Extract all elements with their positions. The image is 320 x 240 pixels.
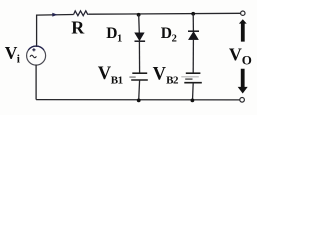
svg-text:1: 1	[117, 34, 122, 45]
node top junction D1	[137, 13, 141, 17]
battery VB1	[129, 73, 147, 80]
label Vo	[229, 44, 252, 67]
diode D1	[135, 33, 146, 41]
current arrow on top wire	[52, 13, 57, 17]
label D2	[161, 25, 177, 45]
wire D2 anode to battery	[192, 40, 194, 73]
wire D1 anode	[138, 15, 141, 33]
svg-text:R: R	[71, 17, 85, 37]
svg-text:V: V	[98, 64, 112, 84]
wire VB1 to bottom rail	[138, 80, 141, 101]
wire VB2 to bottom rail	[192, 83, 195, 101]
wire top rail	[37, 13, 241, 47]
battery VB2	[181, 73, 202, 83]
label R	[71, 17, 85, 37]
svg-text:B1: B1	[111, 75, 123, 87]
terminal bottom right	[240, 98, 245, 103]
label VB1	[98, 64, 123, 87]
label Vi	[5, 43, 21, 66]
svg-text:V: V	[229, 44, 242, 64]
label D1	[106, 25, 122, 45]
svg-text:V: V	[153, 64, 167, 84]
node top junction D2	[191, 12, 195, 16]
svg-text:D: D	[106, 25, 117, 42]
diode D2	[188, 31, 199, 39]
arrow down Vo minus	[238, 69, 248, 94]
wire D2 cathode	[192, 14, 194, 31]
arrow up Vo plus	[239, 19, 247, 41]
resistor R	[74, 11, 89, 16]
terminal top right	[241, 11, 245, 15]
label VB2	[153, 64, 179, 86]
wire D1 cathode to battery	[138, 41, 140, 72]
voltage source Vi	[27, 46, 46, 65]
wire bottom rail	[36, 99, 240, 101]
svg-text:D: D	[161, 25, 172, 42]
svg-text:O: O	[242, 53, 252, 68]
svg-text:B2: B2	[166, 75, 179, 87]
node bottom junction D2	[191, 99, 195, 103]
wire left bottom	[35, 65, 37, 100]
svg-text:2: 2	[172, 34, 177, 45]
node bottom junction D1	[137, 99, 141, 103]
svg-text:i: i	[17, 54, 21, 66]
